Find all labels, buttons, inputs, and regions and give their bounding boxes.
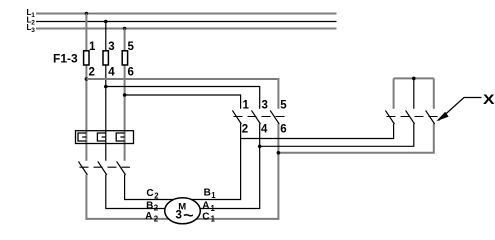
main contactor contact blade 3 — [117, 161, 126, 175]
svg-text:~: ~ — [183, 207, 194, 224]
wire phase2 vertical upper — [105, 21, 107, 161]
junction dot L1/phase1 — [85, 12, 89, 16]
junction dot phase2 tap — [104, 85, 108, 89]
junction dot contact4/star — [258, 145, 262, 149]
svg-text:2: 2 — [31, 19, 35, 26]
star contactor linkage (dashed) — [387, 116, 441, 118]
svg-text:1: 1 — [243, 100, 250, 112]
node L3 label — [27, 23, 36, 34]
svg-text:3: 3 — [176, 210, 182, 222]
svg-text:A: A — [145, 211, 152, 222]
junction dot star bus — [412, 77, 416, 81]
svg-text:3: 3 — [31, 27, 35, 34]
svg-text:2: 2 — [89, 67, 95, 79]
delta contactor contact blade 3 — [270, 110, 279, 124]
terminal label A2 — [145, 211, 159, 223]
main contactor linkage (dashed) — [80, 166, 131, 168]
terminal label B2 — [146, 200, 159, 212]
terminal label B1 — [204, 188, 217, 200]
motor M — [165, 198, 201, 224]
svg-text:F1-3: F1-3 — [53, 52, 78, 66]
node L2 label — [27, 15, 36, 26]
arrow to star contactor — [439, 98, 482, 121]
delta contactor linkage (dashed) — [234, 116, 288, 118]
arrowhead — [436, 112, 448, 122]
wire tap phase1 to delta contact 5 — [86, 79, 278, 109]
svg-text:1: 1 — [211, 191, 216, 200]
wire phase3 vertical upper — [124, 29, 126, 161]
wire tap phase3 to delta contact 1 — [125, 95, 241, 109]
overload relay box — [76, 131, 134, 144]
wire star contact 1 upper — [393, 78, 395, 108]
svg-text:4: 4 — [261, 123, 268, 135]
svg-text:2: 2 — [154, 204, 159, 213]
svg-text:2: 2 — [154, 192, 159, 201]
fuse F2 — [103, 51, 108, 65]
wire L2 rail — [36, 21, 337, 23]
wire tap phase2 to delta contact 3 — [106, 87, 260, 109]
svg-text:1: 1 — [211, 215, 216, 224]
fuse F3 — [122, 51, 127, 65]
main contactor contact blade 2 — [98, 161, 107, 175]
star contactor contact blade 3 — [426, 110, 435, 124]
svg-text:1: 1 — [31, 12, 35, 19]
junction dot L3/phase3 — [123, 27, 127, 31]
overload heater element 2 — [97, 133, 105, 141]
svg-text:4: 4 — [108, 67, 115, 79]
terminal label A1 — [202, 201, 215, 213]
junction dot phase1 tap — [85, 77, 89, 81]
svg-text:B: B — [204, 188, 211, 199]
wire L1 rail — [36, 13, 337, 15]
node L1 label — [27, 8, 36, 19]
junction dot phase3 tap — [123, 93, 127, 97]
svg-text:5: 5 — [128, 41, 135, 53]
svg-text:B: B — [146, 200, 153, 211]
main contactor contact blade 1 — [78, 161, 87, 175]
star contactor contact blade 2 — [406, 110, 415, 124]
svg-text:C: C — [146, 188, 153, 199]
wire star contact 3 upper — [433, 78, 435, 108]
overload heater element 1 — [78, 133, 86, 141]
svg-text:3: 3 — [262, 100, 268, 112]
svg-text:2: 2 — [154, 215, 159, 224]
delta contactor contact blade 1 — [232, 110, 241, 124]
svg-text:3: 3 — [108, 41, 114, 53]
wire phase3 vertical lower to motor C2 — [125, 124, 241, 200]
svg-text:5: 5 — [280, 100, 287, 112]
svg-text:A: A — [202, 201, 209, 212]
svg-text:1: 1 — [89, 41, 96, 53]
wire delta bottom 6 to star contact 3 — [278, 124, 433, 153]
wire phase1 vertical lower to motor A2 — [86, 124, 278, 219]
svg-text:6: 6 — [280, 123, 286, 135]
terminal label C1 — [202, 211, 215, 223]
terminal label C2 — [146, 188, 159, 200]
fuse F1 — [84, 51, 89, 65]
junction dot L2/phase2 — [104, 20, 108, 24]
junction dot contact6/star — [277, 151, 281, 155]
svg-text:X: X — [483, 91, 495, 107]
overload heater element 3 — [116, 133, 124, 141]
svg-text:2: 2 — [242, 123, 248, 135]
star point bus — [394, 77, 434, 79]
wire L3 rail — [36, 28, 337, 30]
wire delta bottom 2 to star contact 1 — [241, 124, 394, 139]
svg-text:C: C — [202, 211, 209, 222]
wire phase1 vertical upper — [85, 14, 87, 161]
wire phase2 vertical lower to motor B2 — [106, 124, 260, 209]
svg-text:1: 1 — [211, 204, 216, 213]
wire delta bottom 4 to star contact 2 — [260, 124, 414, 147]
wire star contact 2 upper — [413, 78, 415, 108]
delta contactor contact blade 2 — [252, 110, 261, 124]
svg-text:6: 6 — [128, 67, 134, 79]
star contactor contact blade 1 — [385, 110, 394, 124]
